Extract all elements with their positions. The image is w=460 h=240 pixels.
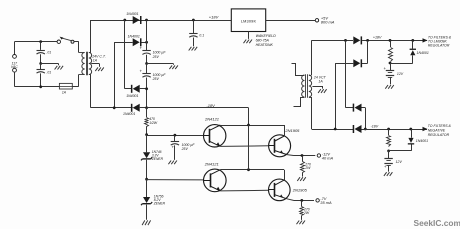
- svg-text:.01: .01: [46, 51, 51, 55]
- wire: U1 ground pin: [248, 32, 250, 39]
- svg-text:WAKEFIELD: WAKEFIELD: [256, 34, 277, 38]
- wire: Q3 emitter to -12V output: [287, 154, 315, 157]
- junction: +18V at D9: [411, 39, 414, 42]
- resistor R1 470 1/2W: [145, 108, 149, 127]
- svg-text:1N4001: 1N4001: [126, 12, 138, 16]
- ground: B1: [385, 85, 394, 89]
- svg-text:SeekIC.com: SeekIC.com: [414, 218, 460, 228]
- ground: T2 center tap: [318, 89, 327, 93]
- diode D7 1N4001: [353, 104, 362, 112]
- wire: B1 to ground: [390, 77, 392, 84]
- label: CR1 1N746 3.3V ZENER: [151, 150, 164, 161]
- label: 117 VAC: [11, 61, 18, 69]
- wire: node B to Q2 base: [147, 179, 204, 181]
- label: Q3 2N1905: [284, 128, 300, 133]
- wire: T2 secondary bottom to -18V rail: [312, 97, 354, 130]
- wire: negative rail bottom: [91, 107, 133, 109]
- junction: R5 bottom node: [387, 150, 390, 153]
- svg-text:HEATSINK: HEATSINK: [256, 43, 274, 47]
- label: Q2 2N4121: [204, 161, 219, 166]
- wire: T2 center tap: [312, 86, 322, 89]
- transformer T2 primary winding: [302, 75, 305, 97]
- junction: +18V at R4: [389, 39, 392, 42]
- junction: bottom AC rail at C2: [39, 85, 42, 88]
- wire: zener node B: [146, 160, 148, 179]
- junction: -18V at D10: [409, 128, 412, 131]
- wire: D3 row: [125, 20, 132, 89]
- svg-text:-18V: -18V: [206, 103, 215, 108]
- wire: R2 to ground: [302, 172, 304, 176]
- wire: R3 to ground: [301, 216, 303, 220]
- junction: +18V rail at C6: [192, 19, 195, 22]
- terminal: +5V output: [315, 19, 318, 22]
- svg-text:ZENER: ZENER: [153, 202, 166, 206]
- label: T1 24V C.T. 1A: [91, 54, 106, 62]
- label: B1 12V: [397, 72, 404, 76]
- wire: T1 center tap: [91, 64, 99, 67]
- transistor Q2 2N4121: [204, 169, 227, 192]
- svg-text:1A: 1A: [93, 59, 98, 63]
- label: +18V: [373, 36, 382, 40]
- svg-text:2N4121: 2N4121: [204, 117, 219, 122]
- diode D4 1N4001: [131, 104, 147, 112]
- diode D9 1N4001: [410, 40, 416, 55]
- capacitor C3 1000uF 25V: [139, 20, 150, 64]
- svg-text:1N4001: 1N4001: [128, 35, 140, 39]
- wire: -18V rail to pass transistors: [147, 108, 249, 125]
- wire: switch to transformer primary: [74, 41, 79, 52]
- wire: T1 secondary top to +rectifier rail: [90, 20, 92, 53]
- junction: D3 anode at -rail: [145, 87, 148, 90]
- transistor Q4 2N1905: [269, 179, 291, 201]
- junction: -rail at D2 branch: [113, 106, 116, 109]
- wire: CR2 to ground: [146, 205, 148, 220]
- svg-text:2N1905: 2N1905: [292, 187, 308, 192]
- junction: -rail at D6 feed: [334, 128, 337, 131]
- wire: T2 primary top lead: [292, 64, 305, 76]
- label: D9 1N4001: [417, 51, 429, 55]
- wire: D6 anode to secondary bottom feed: [335, 63, 353, 129]
- wire: Q4 emitter to -7V output: [287, 199, 314, 201]
- label: WAKEFIELD 680-75A HEATSINK: [256, 34, 277, 47]
- svg-text:REGULATOR: REGULATOR: [428, 44, 450, 48]
- junction: D2 cathode at cap chain: [145, 41, 148, 44]
- ground: T1 center tap: [95, 67, 104, 71]
- label: D1 1N4001: [126, 12, 138, 16]
- label: D3 1N4001: [126, 94, 138, 98]
- svg-text:1A: 1A: [62, 91, 67, 95]
- junction: top rail at filter caps: [145, 19, 148, 22]
- svg-text:LM309K: LM309K: [241, 20, 257, 24]
- label: -7V 35 mA: [320, 196, 332, 205]
- wire: Q1 collector to -18V node: [220, 125, 284, 127]
- junction: node B -8.2V reference: [145, 178, 148, 181]
- wire: Q1 emitter to Q3 base: [220, 145, 268, 148]
- zener CR1 1N746 3.3V: [141, 135, 152, 161]
- svg-text:REGULATOR: REGULATOR: [428, 133, 450, 137]
- wire: fuse to primary bottom: [72, 75, 78, 87]
- svg-text:ZENER: ZENER: [151, 157, 164, 161]
- svg-text:680-75A: 680-75A: [256, 39, 270, 43]
- terminal: AC input top: [13, 55, 17, 59]
- junction: -12V output node: [301, 154, 304, 157]
- label: Q1 2N4121: [204, 117, 219, 122]
- wire: -18V vertical feed: [248, 125, 250, 170]
- terminal: AC input bottom: [13, 68, 17, 72]
- battery B1 12V: [383, 63, 394, 78]
- wire: T2 secondary top to +18V diodes: [312, 40, 354, 75]
- wire: U1 output to +5V terminal: [266, 20, 316, 22]
- wire: R5 to D10: [389, 144, 412, 151]
- svg-text:0.1: 0.1: [199, 33, 204, 37]
- svg-text:.01: .01: [46, 70, 51, 74]
- transistor Q3 2N1905: [269, 135, 291, 157]
- junction: cap chain midpoint: [145, 62, 148, 65]
- wire: B2 to ground: [388, 165, 390, 172]
- svg-text:1N4001: 1N4001: [417, 51, 429, 55]
- capacitor C1 .01: [37, 42, 52, 64]
- regulator U1 LM309K: [231, 9, 265, 32]
- svg-text:NEGATIVE: NEGATIVE: [428, 128, 446, 132]
- svg-text:12V: 12V: [397, 72, 404, 76]
- battery B2 12V: [384, 151, 393, 169]
- wire: -18V drop to Q3 collector: [284, 125, 286, 136]
- svg-text:2W: 2W: [303, 211, 310, 215]
- junction: Q1 collector at -18V feed: [247, 124, 250, 127]
- resistor R3 270 2W: [300, 200, 304, 215]
- transformer T2 core: [306, 74, 308, 98]
- transformer T2 secondary winding: [309, 75, 312, 98]
- ground: R3: [297, 221, 306, 225]
- diode D2 1N4001: [133, 38, 147, 46]
- ground: C6: [189, 47, 198, 51]
- capacitor C5 1000uF 25V: [171, 135, 179, 160]
- diode D1 1N4001: [133, 16, 142, 24]
- label: B2 12V: [396, 160, 403, 164]
- ground: filter cap midpoint: [169, 65, 178, 69]
- arrow: +18V to filters: [423, 38, 428, 42]
- label: -18V: [371, 125, 379, 129]
- label: C4 1000 &#181;F 25V: [152, 73, 167, 81]
- diode D3 1N4001: [131, 85, 147, 93]
- wire: AC line bottom from input: [15, 72, 60, 87]
- switch S1: [57, 37, 74, 44]
- svg-text:TO FILTERS &: TO FILTERS &: [428, 124, 452, 128]
- resistor R2 270 2W: [301, 156, 305, 173]
- svg-text:1N4001: 1N4001: [126, 94, 138, 98]
- label: TO FILTERS &amp; NEGATIVE REGULATOR: [428, 124, 452, 137]
- svg-text:+18V: +18V: [373, 36, 382, 40]
- junction: node A cap branch: [174, 134, 177, 137]
- junction: secondary top at D6 feed: [344, 39, 347, 42]
- ground: line filter midpoint: [55, 66, 64, 70]
- label: D4 1N4001: [123, 112, 135, 116]
- svg-text:35 mA: 35 mA: [320, 200, 332, 205]
- ground: C5: [168, 161, 177, 165]
- svg-text:2N1905: 2N1905: [284, 128, 300, 133]
- junction: -18V at R5: [387, 128, 390, 131]
- diode D8 1N4001: [353, 125, 362, 133]
- wire: filter midpoint to ground: [41, 64, 59, 66]
- wire: D6 row: [362, 40, 368, 63]
- transformer T1 primary winding: [79, 53, 85, 75]
- diode D10 1N4001: [408, 129, 414, 145]
- label: C3 1000 &#181;F 25V: [152, 51, 167, 59]
- wire: AC line top from input to switch: [15, 42, 58, 55]
- junction: -rail at cap chain: [145, 106, 148, 109]
- wire: D7 anode join: [362, 108, 366, 130]
- label: CR2 1N756 8.2V ZENER: [153, 195, 166, 206]
- label: D2 1N4001: [128, 35, 140, 39]
- label: C5 1000 &#181;F 25V: [181, 143, 196, 151]
- wire: T2 primary bottom lead: [294, 98, 305, 107]
- junction: top rail to D3 branch: [123, 19, 126, 22]
- capacitor C2 .01: [37, 64, 52, 87]
- arrow: -18V to filters: [423, 127, 428, 131]
- wire: -18V rail: [362, 129, 428, 131]
- svg-text:2W: 2W: [304, 166, 311, 170]
- svg-text:1A: 1A: [318, 79, 323, 83]
- svg-text:1N4001: 1N4001: [416, 139, 428, 143]
- wire: cap midpoint to ground: [147, 64, 174, 65]
- label: R1 470 1/2W: [149, 117, 158, 125]
- wire: Q2 emitter to Q4 base: [220, 189, 269, 192]
- transformer T1 core: [87, 52, 88, 75]
- junction: +18V at D6 join: [366, 39, 369, 42]
- wire: R1 to zener node A: [146, 126, 148, 134]
- zener CR2 1N756 8.2V: [141, 179, 152, 205]
- junction: node A -12V reference: [145, 133, 148, 136]
- svg-text:25V: 25V: [152, 77, 160, 81]
- terminal: -12V output: [317, 154, 320, 157]
- junction: between C1 and C2: [39, 62, 42, 65]
- svg-text:800 mA: 800 mA: [321, 20, 335, 25]
- label: +18V rail: [209, 15, 219, 20]
- fuse F1 1A: [59, 83, 72, 94]
- junction: Q2 collector at -18V feed: [247, 168, 250, 171]
- wire: Q2 collector rail: [220, 169, 284, 171]
- transformer T1 secondary winding: [89, 53, 92, 75]
- label: -18V rail: [206, 103, 215, 108]
- junction: R4 bottom node: [389, 62, 392, 65]
- junction: -7V output node: [300, 199, 303, 202]
- diode D6 1N4001: [353, 59, 362, 67]
- capacitor C4 1000uF 25V: [139, 64, 150, 108]
- ground: B2: [384, 172, 393, 176]
- resistor R5: [387, 129, 391, 147]
- diode D5 1N4001: [353, 36, 362, 44]
- svg-text:2N4121: 2N4121: [204, 161, 219, 166]
- svg-text:40 mA: 40 mA: [322, 156, 334, 161]
- ground: R2: [297, 177, 306, 181]
- label: R2 270 2W: [304, 162, 311, 170]
- label: -12V 40 mA: [322, 151, 334, 160]
- label: R3 270 2W: [303, 207, 310, 215]
- label: TO FILTERS &amp; TO LM309K REGULATOR: [428, 36, 452, 48]
- watermark: SeekIC.com: [414, 218, 460, 228]
- svg-text:1N4001: 1N4001: [123, 112, 135, 116]
- svg-text:25V: 25V: [152, 55, 160, 59]
- svg-text:12V: 12V: [396, 160, 403, 164]
- wire: D5 cathode to +18V rail: [362, 40, 427, 42]
- junction: top rail at C1: [39, 40, 42, 43]
- wire: T1 secondary bottom to -rectifier rail: [90, 75, 92, 108]
- label: +5V 800 mA: [321, 15, 335, 24]
- wire: positive rectifier top rail: [91, 20, 232, 22]
- ground: zener chain: [142, 220, 151, 225]
- label: T2 24 VCT 1A: [313, 76, 327, 84]
- capacitor C6 0.1: [189, 20, 204, 46]
- wire: node A to Q1 base: [147, 135, 204, 137]
- svg-text:1/2W: 1/2W: [149, 121, 158, 125]
- svg-text:+18V: +18V: [209, 15, 219, 20]
- label: D10 1N4001: [416, 139, 428, 143]
- svg-text:25V: 25V: [181, 147, 189, 151]
- svg-text:-18V: -18V: [371, 125, 379, 129]
- resistor R4: [389, 40, 393, 61]
- terminal: -7V output: [316, 199, 319, 202]
- wire: D2 anode row: [114, 42, 133, 108]
- ground: U1: [244, 40, 253, 44]
- junction: -18V rail at D7 join: [364, 128, 367, 131]
- wire: R4 to D9: [390, 55, 413, 63]
- transistor Q1 2N4121: [204, 125, 226, 147]
- wire: drop to Q4 collector: [284, 170, 286, 181]
- label: Q4 2N1905: [292, 187, 308, 192]
- wire: secondary top down feed: [346, 40, 354, 107]
